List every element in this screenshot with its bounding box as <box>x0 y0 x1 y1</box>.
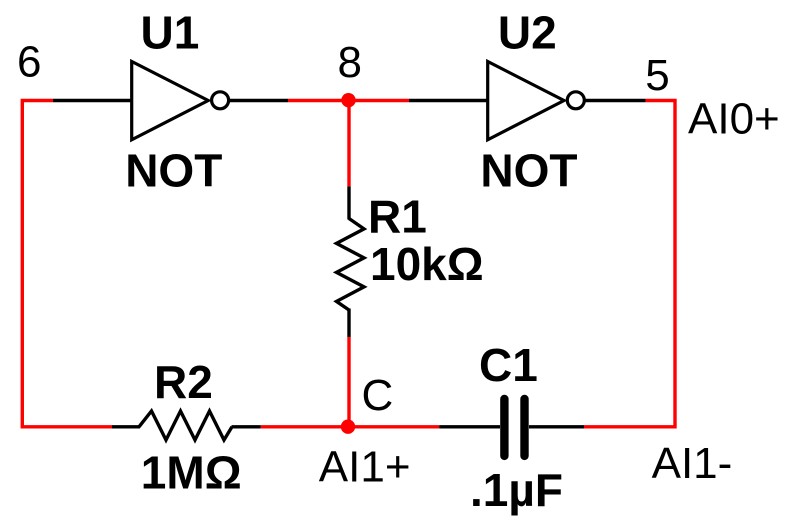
svg-text:U1: U1 <box>141 6 200 58</box>
svg-text:AI1+: AI1+ <box>319 443 411 492</box>
svg-text:R1: R1 <box>368 191 427 243</box>
svg-text:5: 5 <box>645 51 669 100</box>
svg-text:6: 6 <box>17 38 41 87</box>
svg-text:AI1-: AI1- <box>652 439 733 488</box>
svg-text:U2: U2 <box>498 6 557 58</box>
svg-text:NOT: NOT <box>125 145 222 197</box>
svg-text:C: C <box>362 371 394 420</box>
svg-text:AI0+: AI0+ <box>688 94 780 143</box>
svg-text:C1: C1 <box>479 339 538 391</box>
svg-text:NOT: NOT <box>480 145 577 197</box>
svg-text:8: 8 <box>338 38 362 87</box>
svg-text:R2: R2 <box>154 356 213 408</box>
svg-text:1MΩ: 1MΩ <box>141 446 242 498</box>
svg-text:10kΩ: 10kΩ <box>370 238 484 290</box>
svg-text:.1µF: .1µF <box>470 464 563 516</box>
